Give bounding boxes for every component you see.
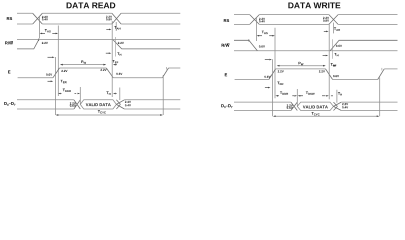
dimension line TCYC right	[274, 115, 378, 117]
wire long vertical at E rise bottom	[54, 57, 56, 115]
dimension arrow left of E right fall vertical	[332, 65, 336, 67]
signal label D0-D7	[4, 102, 15, 106]
value label 0.4V at X4	[125, 104, 131, 106]
node RS crossover X2	[112, 13, 121, 24]
wire R/W right overline	[227, 43, 230, 45]
value label 2.2V at right X2	[323, 17, 329, 19]
label TCYC	[98, 110, 106, 113]
label TER right	[277, 82, 283, 85]
wire RS top rail	[17, 12, 180, 14]
node tick at right second E rise corner	[381, 68, 383, 71]
wire vertical at E rise top	[57, 26, 59, 97]
value label 2.2V at X1	[42, 16, 48, 18]
value label 2.2V at E right rise top	[278, 70, 284, 72]
label TH at RW fall tick	[117, 52, 121, 55]
value label 2.2V at right X4	[342, 103, 348, 105]
wire data top rail left	[17, 99, 74, 101]
value label 2.4V at X4	[125, 101, 131, 103]
label TER	[61, 80, 67, 83]
value label 2.2V at R/W rise	[42, 42, 48, 44]
dimension arrow left of E fall vertical	[113, 64, 117, 66]
node tick at R/W fall	[248, 39, 250, 42]
wire data bottom rail left	[17, 108, 74, 110]
dimension arrow TAH	[106, 28, 109, 30]
dimension arrows TDSW	[300, 95, 326, 97]
dimension arrow at E fall for RW hold	[106, 52, 109, 54]
dimension PW right line	[278, 65, 326, 67]
wire data top rail right	[124, 99, 180, 101]
label TAS right	[262, 31, 268, 34]
value label 0.6V at R/W fall	[259, 45, 265, 47]
value label 2.2V at R/W fall	[118, 42, 124, 44]
label PW	[81, 60, 86, 63]
wire data bottom rail right	[124, 108, 180, 110]
label TH read	[106, 92, 110, 95]
value label 2.2V at X3	[70, 102, 76, 104]
wire vertical at data X4	[119, 88, 121, 101]
label PW right	[299, 62, 304, 65]
wire vertical at right second E rise	[379, 78, 381, 117]
wire E low rail left	[18, 77, 53, 79]
wire E high rail	[60, 67, 107, 69]
label TAS	[45, 29, 51, 32]
wire data right bottom rail left	[234, 110, 291, 112]
value label 0.6V at E right fall	[333, 75, 339, 77]
node RS right crossover X1	[250, 15, 260, 25]
dimension arrow TH	[113, 93, 117, 95]
value label 0.6V at E right rise	[264, 76, 270, 78]
wire RS right bottom rail	[234, 23, 398, 25]
dimension line TCYC	[57, 114, 162, 116]
dimension arrows TAS right	[258, 35, 262, 37]
wire E low rail mid	[113, 77, 162, 79]
wire tick at R/W rise crossing	[332, 39, 334, 59]
label TDDR right	[280, 91, 288, 94]
label VALID DATA	[86, 103, 111, 106]
wire tick below RS right X2	[333, 23, 335, 34]
value label 2.2V at E rise top	[61, 70, 67, 72]
title DATA WRITE	[288, 2, 340, 8]
wire data right top rail left	[234, 101, 291, 103]
wire E high stub right	[169, 67, 181, 69]
wire E right second rising edge	[378, 69, 385, 80]
wire E right low rail left	[235, 79, 269, 81]
wire E rising edge	[53, 68, 60, 78]
wire vertical at right E rise top	[274, 28, 276, 99]
wire data right top rail right	[341, 101, 397, 103]
wire tick below RS X2	[115, 22, 117, 31]
signal label RS	[7, 17, 12, 20]
wire E right falling edge	[326, 69, 333, 80]
dimension arrows TAS	[41, 32, 45, 34]
wire vertical at second E rise	[162, 75, 164, 115]
wire E right rising edge	[269, 69, 276, 80]
value label 0.6V at E rise	[46, 74, 52, 76]
signal label RS right	[224, 19, 229, 22]
label TDDR	[63, 89, 71, 92]
value label 2.2V at E right fall top	[319, 70, 325, 72]
wire dimension line below X1	[38, 16, 40, 39]
wire R/W low left stub and rising edge	[17, 40, 39, 49]
dimension arrows TDDR right	[277, 95, 294, 97]
dimension arrow TAH right	[324, 30, 327, 32]
label TEF right	[331, 63, 337, 66]
value label 0.8V at X2	[106, 18, 112, 20]
dimension arrow before TDDR right	[265, 87, 269, 89]
dimension arrow at E rise	[48, 56, 53, 58]
dimension arrow at right E fall for RW hold	[323, 55, 326, 57]
signal label R/W right	[222, 44, 230, 47]
node data right crossover X4	[334, 102, 342, 110]
wire E right low rail mid	[333, 79, 378, 81]
wire tick at R/W fall crossing	[115, 37, 117, 57]
dimension arrow at E right rise	[265, 59, 270, 61]
value label 0.4V at right X4	[342, 106, 348, 108]
value label 0.6V at right X3	[287, 107, 293, 109]
label TCYC right	[312, 112, 320, 115]
wire vertical at data right X4	[336, 90, 338, 103]
dimension arrows TDDR	[60, 93, 76, 95]
node data right crossover X3	[291, 102, 297, 110]
dimension PW line	[61, 64, 106, 66]
wire R/W high rail	[17, 39, 180, 41]
wire vertical at data X3 right	[79, 87, 81, 104]
wire R/W falling edge and low rail	[113, 40, 180, 49]
wire dimension line below right X1	[255, 18, 257, 42]
label TH at right RW rise tick	[334, 53, 338, 56]
node tick at R/W rise	[38, 38, 40, 41]
value label 0.8V at right X2	[323, 20, 329, 22]
label TDSW	[306, 91, 315, 94]
value label 0.6V at E fall	[116, 73, 122, 75]
signal label R/W	[5, 41, 13, 44]
wire long vertical at E fall	[111, 21, 113, 97]
node data crossover X3	[74, 100, 80, 109]
shape valid data hexagon right	[297, 102, 333, 110]
title DATA READ	[67, 2, 116, 8]
value label 2.2V at right X3	[287, 105, 293, 107]
signal label D0-D7 right	[221, 104, 232, 108]
dimension dash TH write	[331, 95, 333, 97]
label TAH	[114, 26, 120, 29]
label TH write	[338, 92, 342, 95]
wire long vertical at E right rise bottom	[272, 59, 274, 116]
wire E right high rail	[276, 68, 326, 70]
value label 0.6V at R/W rise	[336, 45, 342, 47]
dimension arrow before TDDR	[48, 80, 52, 82]
node data crossover X4	[116, 100, 124, 109]
value label 2.2V at right X1	[259, 18, 265, 20]
value label 2.2V at E fall top	[101, 69, 107, 71]
wire data right bottom rail right	[341, 110, 397, 112]
wire R/W right low rail	[234, 50, 398, 52]
wire RS bottom rail	[17, 23, 180, 25]
value label 0.6V at X3	[70, 105, 76, 107]
node tick at second E rise corner	[165, 67, 167, 70]
value label 0.4V at X1	[42, 18, 48, 20]
wire long vertical at E right fall	[328, 23, 330, 99]
value label 0.4V at right X1	[259, 20, 265, 22]
value label 2.2V at X2	[106, 16, 112, 18]
label VALID DATA right	[303, 106, 328, 109]
label TAH right	[334, 28, 340, 31]
wire R/W right high stub and falling edge	[234, 40, 257, 51]
wire vertical at data right X3	[296, 89, 298, 106]
wire RS right top rail	[234, 14, 398, 16]
wire E second rising edge	[162, 68, 168, 78]
shape valid data hexagon	[80, 100, 116, 109]
node RS right crossover X2	[329, 15, 338, 25]
signal label E	[8, 71, 10, 74]
node RS crossover X1	[33, 13, 43, 24]
signal label E right	[225, 73, 227, 76]
label TEF	[113, 60, 119, 63]
wire E right high stub	[384, 68, 397, 70]
wire E falling edge	[106, 68, 113, 78]
wire R/W overline	[10, 40, 13, 42]
wire R/W right rising edge and high rail	[330, 40, 397, 51]
